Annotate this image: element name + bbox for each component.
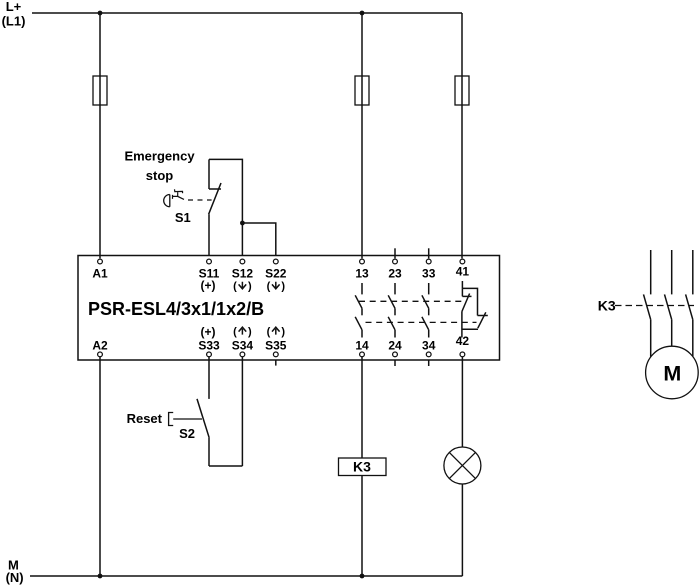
mushroom head actuator of S1 <box>164 195 170 207</box>
terminal A1 <box>92 259 108 280</box>
contact blade <box>197 399 209 438</box>
wire A2 down to bottom rail <box>99 357 101 576</box>
terminal 41 <box>456 259 470 278</box>
svg-text:(+): (+) <box>201 325 216 339</box>
terminal S35 <box>265 326 287 366</box>
svg-text:S22: S22 <box>265 266 287 280</box>
relay module PSR-ESL4 box <box>78 256 500 361</box>
phase wire L2 to contact <box>671 250 673 294</box>
svg-text:(: ( <box>233 326 237 338</box>
node junction bottom rail / A2 <box>98 574 103 579</box>
contactor K3 main contact pole 1 <box>644 294 651 357</box>
wire lamp down to bottom rail corner <box>461 484 463 576</box>
svg-text:S35: S35 <box>265 339 287 353</box>
svg-text:L+: L+ <box>6 0 22 14</box>
node junction bottom rail / K3 coil <box>360 574 365 579</box>
terminal S34 <box>232 326 254 357</box>
terminal 33 <box>422 248 436 280</box>
wire S34 down <box>241 357 243 466</box>
svg-text:(N): (N) <box>6 570 24 585</box>
detent latch symbol of S1 <box>173 189 185 199</box>
svg-text:): ) <box>281 326 285 338</box>
terminal 42 <box>456 334 470 357</box>
svg-text:34: 34 <box>422 339 436 353</box>
wire branch: L+ rail down to terminal 13 <box>361 13 363 258</box>
terminal S22 <box>265 259 287 292</box>
node junction L+ rail / A1 branch <box>98 11 103 16</box>
node junction S12/S22 branch <box>240 221 245 226</box>
wire below contact <box>208 438 210 466</box>
svg-text:S2: S2 <box>179 426 195 441</box>
svg-text:(: ( <box>267 280 271 292</box>
indicator lamp H1 <box>444 447 481 484</box>
wire A1 branch: L+ rail down to terminal A1 <box>99 13 101 258</box>
relay NO contact 23-24 <box>388 283 395 338</box>
emergency stop label <box>124 149 195 184</box>
svg-text:): ) <box>248 326 252 338</box>
terminal 34 <box>422 339 436 367</box>
svg-text:24: 24 <box>388 339 402 353</box>
svg-text:K3: K3 <box>353 459 371 475</box>
net M (N) label <box>6 558 24 586</box>
pushbutton actuator of S2 <box>169 413 174 426</box>
contactor K3 main contact pole 2 <box>665 294 672 346</box>
wire terminal 42 down to lamp <box>461 357 463 447</box>
wire branch to S22 <box>242 223 275 256</box>
terminal S33 <box>198 325 220 357</box>
svg-text:PSR-ESL4/3x1/1x2/B: PSR-ESL4/3x1/1x2/B <box>88 299 264 319</box>
wire loop over to S12 <box>209 159 242 255</box>
terminal A2 <box>92 339 108 357</box>
fuse F2 <box>355 76 369 105</box>
motor M1 <box>646 346 699 399</box>
relay NO contact 33-34 <box>422 283 429 338</box>
svg-text:(+): (+) <box>201 279 216 293</box>
wire M (N) bottom return rail <box>30 575 462 577</box>
svg-text:13: 13 <box>355 266 369 280</box>
dashed actuator link S1 <box>188 199 212 201</box>
svg-text:Reset: Reset <box>127 411 163 426</box>
wire S33 down to contact <box>208 357 210 399</box>
phase wire L3 to contact <box>692 250 694 294</box>
svg-text:33: 33 <box>422 266 436 280</box>
terminal S12 <box>232 259 254 292</box>
node junction L+ rail / terminal-13 branch <box>360 11 365 16</box>
contactor coil K3 <box>339 458 387 476</box>
dashed linkage K3 contacts <box>615 305 694 307</box>
contactor K3 main contact pole 3 <box>686 294 693 356</box>
terminal 23 <box>388 248 402 280</box>
dashed mechanical linkage row 1 <box>359 300 466 302</box>
wire bottom loop over to S34 <box>209 465 242 467</box>
terminal 13 <box>355 259 369 280</box>
switch S1 emergency-stop NC contact <box>209 159 243 255</box>
net L+ (L1) label <box>2 0 26 29</box>
svg-text:(: ( <box>267 326 271 338</box>
svg-text:Emergency: Emergency <box>124 149 195 164</box>
contact blade <box>209 183 221 214</box>
svg-text:14: 14 <box>355 339 369 353</box>
terminal S11 <box>199 259 220 292</box>
svg-text:): ) <box>248 280 252 292</box>
motor branch: three phase wires <box>651 250 693 294</box>
svg-text:A2: A2 <box>92 339 108 353</box>
actuator link S2 <box>173 418 202 420</box>
svg-text:S1: S1 <box>175 210 191 225</box>
svg-text:41: 41 <box>456 265 470 279</box>
fixed contact hook bar <box>209 188 221 190</box>
fuse F3 <box>455 76 469 105</box>
svg-text:M: M <box>663 362 681 386</box>
svg-text:(: ( <box>233 280 237 292</box>
svg-text:23: 23 <box>388 266 402 280</box>
svg-text:S34: S34 <box>232 339 254 353</box>
wire S11 up to contact <box>208 214 210 256</box>
svg-text:(L1): (L1) <box>2 14 26 29</box>
svg-text:stop: stop <box>146 168 174 183</box>
svg-text:S33: S33 <box>198 339 220 353</box>
svg-text:): ) <box>281 280 285 292</box>
wire terminal 14 down to coil K3 <box>361 357 363 458</box>
dashed mechanical linkage row 2 <box>366 321 477 323</box>
svg-text:A1: A1 <box>92 266 108 280</box>
fuse F1 <box>93 76 107 105</box>
wire coil K3 down to bottom rail <box>361 476 363 577</box>
svg-text:S12: S12 <box>232 266 254 280</box>
wire branch: L+ rail corner down to terminal 41 <box>461 13 463 258</box>
wire L+ top supply rail <box>32 12 462 14</box>
relay NC contact pair 41-42 <box>462 281 488 338</box>
terminal 24 <box>388 339 402 367</box>
svg-text:42: 42 <box>456 334 470 348</box>
terminal 14 <box>355 339 369 357</box>
wire upper terminal <box>208 159 210 189</box>
relay NO contact 13-14 <box>355 283 362 338</box>
phase wire L1 to contact <box>650 250 652 294</box>
switch S2 reset NO contact <box>197 357 242 466</box>
svg-text:K3: K3 <box>598 298 616 314</box>
